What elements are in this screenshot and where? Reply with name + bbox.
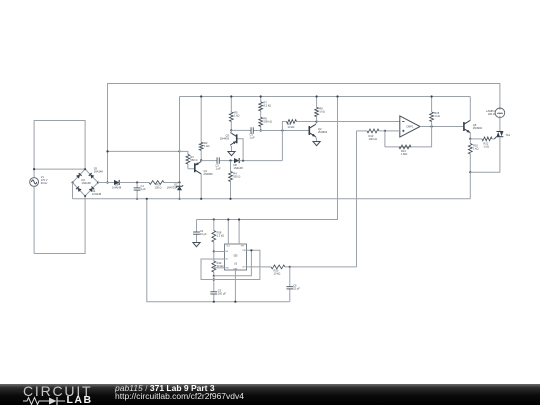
wire bridge edge TR: [85, 169, 98, 182]
resistor R16: [468, 139, 472, 172]
label C2: [216, 164, 222, 171]
wire R9 branch: [282, 122, 285, 131]
wire Q3 emitter down: [230, 145, 231, 150]
svg-text:10 kΩ: 10 kΩ: [274, 271, 281, 275]
label R3: [190, 155, 197, 162]
node mid link right: [178, 150, 180, 152]
label D7: [167, 183, 178, 190]
zener diode D7: [176, 183, 183, 199]
wire R3 to Q1 base: [188, 168, 195, 169]
wire plus input line: [385, 130, 400, 132]
capacitor C1: [134, 183, 141, 199]
label D8: [234, 163, 244, 170]
node R4 bottom: [229, 198, 231, 200]
logo resistor glyph: [23, 398, 49, 405]
label R20: [274, 268, 281, 275]
wire feedback riser: [384, 131, 386, 147]
transistor Q5 2N3904: [464, 120, 470, 132]
ground Q3 emitter: [228, 150, 235, 156]
resistor R4: [229, 161, 233, 199]
svg-text:1N4148: 1N4148: [112, 185, 122, 189]
svg-text:100 Ω: 100 Ω: [155, 186, 162, 190]
wire 555 left drop: [147, 199, 290, 302]
label R13: [369, 134, 377, 141]
node V1 top junction: [33, 168, 35, 170]
svg-text:2N3904: 2N3904: [473, 126, 483, 130]
resistor R20: [269, 265, 290, 269]
node thr corner: [250, 249, 252, 251]
label Q2: [318, 127, 328, 134]
label R14: [401, 149, 407, 156]
svg-text:8.2 kΩ: 8.2 kΩ: [264, 104, 272, 108]
diode D4 bridge bottom-left: [76, 187, 82, 193]
resistor R3: [186, 154, 190, 169]
label D6: [112, 182, 122, 189]
capacitor C6: [286, 267, 293, 302]
capacitor C5: [210, 289, 217, 302]
wire mid link: [108, 150, 180, 152]
svg-text:TA1: TA1: [506, 133, 511, 137]
node R4 top: [229, 160, 231, 162]
CircuitLab logo: [23, 384, 93, 405]
node R2 top: [200, 95, 202, 97]
diode D6: [114, 180, 119, 185]
wire Q1 collector down: [200, 174, 202, 199]
node Q1 collector rail: [200, 198, 202, 200]
wire loop bottom: [34, 196, 85, 254]
IC U3 pin labels: [225, 246, 246, 271]
svg-text:200 kΩ: 200 kΩ: [264, 120, 272, 124]
svg-text:60 Hz: 60 Hz: [41, 181, 48, 185]
label D2: [82, 178, 92, 185]
wire return drop: [469, 172, 471, 199]
transistor Q2 2N3904: [309, 124, 315, 136]
svg-text:1 kΩ: 1 kΩ: [204, 144, 209, 148]
node VCC stub: [227, 218, 229, 220]
wire R3 jog: [180, 151, 188, 153]
svg-text:22 µF: 22 µF: [293, 287, 300, 291]
node discharge: [213, 250, 215, 252]
svg-text:1 µF: 1 µF: [250, 135, 256, 139]
capacitor C3: [248, 127, 256, 133]
wire feedback drop: [412, 127, 431, 147]
svg-text:1N4733A: 1N4733A: [167, 186, 178, 190]
wire V1 upper lead: [33, 169, 35, 177]
resistor R8: [315, 97, 319, 122]
label Q1: [204, 169, 214, 176]
wire Q2 collector up: [315, 122, 318, 125]
node zener top rail: [178, 181, 180, 183]
node bridge left: [72, 182, 74, 184]
wire outer loop rectangle: [34, 121, 85, 170]
wire Q5 emitter: [469, 133, 471, 139]
node D7 bottom: [178, 198, 180, 200]
svg-text:1 kΩ: 1 kΩ: [434, 114, 439, 118]
svg-text:CMP1: CMP1: [406, 125, 414, 129]
svg-text:500 Ω: 500 Ω: [233, 175, 240, 179]
svg-text:1N4148: 1N4148: [234, 166, 244, 170]
label R1: [155, 183, 162, 190]
wire bottom return rail: [73, 198, 471, 200]
svg-text:10 µF: 10 µF: [200, 232, 207, 236]
wire Q3 collector up: [230, 130, 231, 133]
label R16: [473, 143, 478, 150]
wire R19 to C5: [213, 276, 215, 289]
svg-text:1N4148: 1N4148: [92, 192, 102, 196]
svg-text:RST: RST: [241, 246, 244, 248]
label TA1: [506, 133, 511, 137]
wire RESET pin stub: [238, 220, 240, 245]
node bridge right: [97, 182, 99, 184]
resistor R2: [199, 97, 203, 161]
wire threshold link: [214, 250, 252, 275]
svg-text:10 kΩ: 10 kΩ: [288, 125, 295, 129]
resistor R15: [430, 97, 434, 127]
lamp LAMP1: [495, 108, 505, 118]
node Q3 collector: [230, 129, 232, 131]
wire R13 riser: [356, 131, 358, 267]
wire top link V1 to bridge top: [34, 168, 85, 170]
wire V1 lower lead: [33, 187, 35, 254]
ground Q2 emitter: [313, 140, 320, 146]
op-amp CMP1: [400, 116, 420, 137]
node C1 bottom: [136, 198, 138, 200]
node R8 top: [316, 95, 318, 97]
svg-text:1N4148: 1N4148: [82, 181, 92, 185]
wire C3 line left: [231, 129, 248, 131]
label R8: [319, 107, 324, 114]
svg-text:1 µF: 1 µF: [216, 167, 222, 171]
svg-text:2N4403: 2N4403: [220, 137, 230, 141]
wire control loop: [201, 250, 260, 279]
node trig cross: [213, 278, 215, 280]
label R15: [434, 111, 439, 118]
label R18: [217, 231, 225, 238]
wire rectified rail: [98, 182, 114, 184]
node R5 top: [230, 95, 232, 97]
label R5: [234, 110, 239, 117]
wire minus input line: [317, 121, 400, 123]
node plus input: [384, 130, 386, 132]
wire output line: [247, 266, 270, 268]
wire top power line: [108, 84, 500, 183]
label Q3: [220, 134, 230, 141]
node base line tap: [281, 129, 283, 131]
wire emitter to gate: [470, 138, 479, 140]
label R19: [217, 261, 224, 268]
wire top supply rail: [180, 96, 471, 98]
node C1 top: [136, 181, 138, 183]
resistor R6: [259, 117, 263, 131]
svg-text:1N4148: 1N4148: [94, 169, 104, 173]
resistor R14: [385, 145, 413, 149]
label R4: [233, 172, 240, 179]
wire bridge edge BR: [85, 183, 98, 197]
node RESET stub: [238, 218, 240, 220]
node R6 bottom: [260, 129, 262, 131]
diode D2 bridge top-left: [76, 173, 82, 179]
wire clamp line mid: [222, 160, 234, 162]
label C3: [250, 132, 256, 139]
node 555 supply tap: [336, 95, 338, 97]
resistor R18: [212, 220, 216, 252]
label D4: [92, 189, 102, 196]
label R12: [484, 142, 489, 149]
triac TA1: [494, 132, 503, 139]
label C6: [293, 284, 300, 291]
node bridge top: [84, 168, 86, 170]
resistor R9: [286, 120, 317, 124]
wire clamp to base riser: [281, 131, 283, 161]
svg-text:1 kΩ: 1 kΩ: [484, 145, 489, 149]
node R18 top: [213, 218, 215, 220]
svg-text:OUT: OUT: [242, 267, 246, 269]
svg-text:1 kΩ: 1 kΩ: [473, 146, 478, 150]
node rail tap: [106, 181, 108, 183]
resistor R7: [259, 97, 263, 118]
svg-text:560 Ω: 560 Ω: [190, 158, 197, 162]
svg-text:555: 555: [234, 254, 239, 257]
diode D5 bridge bottom-right: [89, 187, 95, 193]
node R16 bottom: [469, 171, 471, 173]
wire discharge link: [214, 251, 225, 253]
node Q1 emitter: [200, 159, 202, 161]
label Q5: [473, 123, 483, 130]
node C5 bottom: [213, 301, 215, 303]
wire Q2 emitter down: [315, 137, 318, 140]
node R7 top: [260, 95, 262, 97]
resistor R5: [229, 97, 233, 131]
label C1: [141, 184, 147, 191]
wire triac down: [470, 137, 500, 172]
svg-text:100 kΩ: 100 kΩ: [369, 137, 377, 141]
resistor R13: [357, 129, 385, 133]
wire opamp output: [420, 126, 464, 128]
svg-text:1 MΩ: 1 MΩ: [401, 152, 407, 156]
node threshold: [213, 275, 215, 277]
wire C3 line right: [256, 130, 309, 132]
label C4: [200, 229, 207, 236]
node mid link left: [106, 150, 108, 152]
capacitor C4: [193, 229, 200, 238]
transistor Q3 2N4403: [230, 133, 236, 145]
wire clamp line right: [239, 160, 282, 162]
diode D8: [234, 158, 239, 163]
label R2: [204, 141, 209, 148]
wire lamp to triac: [499, 118, 501, 132]
AC source V1: [30, 178, 39, 187]
wire to comparator riser: [290, 266, 357, 268]
wire bridge edge BL: [73, 183, 86, 197]
svg-text:CTL: CTL: [225, 259, 228, 261]
wire Q3 base drop: [237, 139, 243, 161]
node R15 top: [431, 95, 433, 97]
svg-text:100 Ω: 100 Ω: [488, 112, 495, 116]
node bridge bottom: [84, 195, 86, 197]
node Q5 emitter: [469, 138, 471, 140]
label R7: [264, 101, 272, 108]
IC U3 555 timer box: [225, 244, 247, 270]
wire 555 supply drop: [197, 97, 338, 220]
svg-text:2N3904: 2N3904: [318, 130, 328, 134]
label R9: [288, 122, 295, 129]
node GND stub: [234, 301, 236, 303]
resistor R19: [212, 252, 216, 276]
label CMP1: [406, 125, 414, 129]
label D3: [94, 166, 104, 173]
wire zener column: [179, 97, 181, 183]
svg-text:100 µF: 100 µF: [218, 292, 227, 296]
logo diode glyph: [49, 398, 57, 405]
svg-text:1 kΩ: 1 kΩ: [319, 110, 324, 114]
label C5: [218, 289, 227, 296]
wire C4 top: [196, 220, 198, 230]
node output junction: [431, 125, 433, 127]
ground C4: [193, 238, 200, 247]
node Q2 collector: [316, 120, 318, 122]
wire GND pin stub: [234, 270, 236, 302]
wire bridge left corner jog: [72, 183, 74, 199]
label R6: [264, 117, 272, 124]
node Q3 base tap: [242, 160, 244, 162]
svg-text:2.2 kΩ: 2.2 kΩ: [217, 234, 225, 238]
node 555 drop: [146, 198, 148, 200]
wire VCC pin stub: [227, 220, 229, 245]
svg-text:1 µF: 1 µF: [141, 187, 147, 191]
wire trigger stub: [214, 267, 225, 269]
wire rail D6 to R1: [119, 182, 148, 184]
transistor Q1 2N3906: [195, 162, 201, 174]
wire Q5 collector: [469, 97, 471, 121]
svg-text:1 kΩ: 1 kΩ: [234, 113, 239, 117]
node R20 out: [289, 266, 291, 268]
svg-text:2N3906: 2N3906: [204, 172, 214, 176]
wire Q1 emitter up: [200, 160, 202, 161]
wire bridge edge TL: [73, 169, 86, 182]
label V1 value: [41, 175, 48, 185]
diode D3 bridge top-right: [89, 173, 95, 179]
resistor R12: [480, 137, 495, 141]
wire clamp line left: [201, 160, 214, 162]
resistor R1: [148, 181, 180, 185]
label LAMP1: [486, 109, 495, 116]
capacitor C2: [214, 157, 222, 163]
